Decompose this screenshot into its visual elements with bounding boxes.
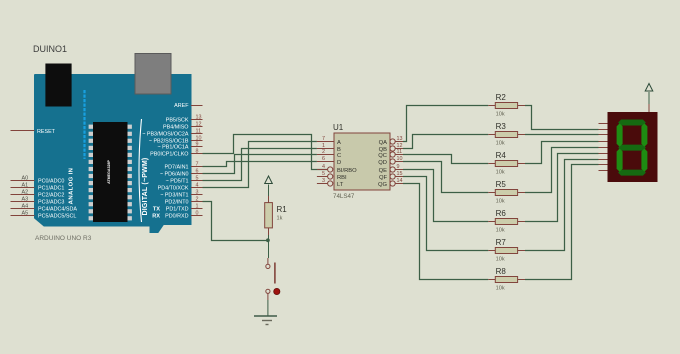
svg-text:13: 13 [397, 136, 403, 142]
svg-text:PD2/INT0: PD2/INT0 [165, 199, 189, 205]
svg-text:10k: 10k [496, 141, 505, 147]
svg-text:PC4/ADC4/SDA: PC4/ADC4/SDA [38, 207, 77, 213]
svg-text:1k: 1k [277, 216, 283, 222]
svg-text:R7: R7 [496, 238, 507, 247]
svg-text:4: 4 [322, 164, 325, 170]
svg-text:PD1/TXD: PD1/TXD [166, 206, 189, 212]
svg-text:QA: QA [379, 140, 388, 146]
svg-text:PD4/T0/XCK: PD4/T0/XCK [158, 185, 189, 191]
svg-text:7: 7 [196, 161, 199, 167]
svg-text:3: 3 [196, 189, 199, 195]
svg-text:LT: LT [337, 182, 344, 188]
svg-text:A: A [337, 140, 341, 146]
svg-text:QC: QC [378, 153, 387, 159]
svg-text:R3: R3 [496, 122, 507, 131]
svg-text:PC1/ADC1: PC1/ADC1 [38, 186, 64, 192]
svg-text:13: 13 [196, 114, 202, 120]
svg-text:PC0/ADC0: PC0/ADC0 [38, 179, 64, 185]
svg-text:U1: U1 [333, 123, 344, 132]
svg-text:QG: QG [378, 182, 388, 188]
svg-text:PC5/ADC5/SCL: PC5/ADC5/SCL [38, 214, 76, 220]
svg-text:5: 5 [196, 175, 199, 181]
svg-text:A2: A2 [22, 189, 29, 195]
svg-text:2: 2 [322, 149, 325, 155]
svg-text:ARDUINO UNO R3: ARDUINO UNO R3 [35, 235, 92, 242]
svg-text:5: 5 [322, 171, 325, 177]
svg-text:DUINO1: DUINO1 [33, 44, 67, 54]
svg-text:BI/RBO: BI/RBO [337, 168, 357, 174]
svg-text:ATMEGA328P: ATMEGA328P [107, 160, 111, 184]
svg-text:A3: A3 [22, 196, 29, 202]
svg-text:~ PB1/OC1A: ~ PB1/OC1A [157, 144, 188, 150]
svg-text:A5: A5 [22, 210, 29, 216]
svg-text:10k: 10k [496, 257, 505, 263]
svg-text:PB5/SCK: PB5/SCK [166, 117, 189, 123]
svg-text:3: 3 [322, 178, 325, 184]
svg-text:~ PD6/AIN0: ~ PD6/AIN0 [160, 171, 189, 177]
svg-text:ANALOG IN: ANALOG IN [69, 168, 75, 205]
svg-text:RESET: RESET [37, 129, 56, 135]
svg-text:10k: 10k [496, 170, 505, 176]
svg-text:8: 8 [196, 148, 199, 154]
svg-text:12: 12 [196, 121, 202, 127]
svg-text:~ PD3/INT1: ~ PD3/INT1 [160, 192, 188, 198]
svg-text:R8: R8 [496, 267, 507, 276]
svg-text:R6: R6 [496, 209, 507, 218]
svg-text:QD: QD [378, 160, 387, 166]
svg-text:0: 0 [196, 210, 199, 216]
svg-text:PC3/ADC3: PC3/ADC3 [38, 200, 64, 206]
svg-text:9: 9 [397, 164, 400, 170]
svg-text:TX: TX [153, 206, 160, 212]
svg-text:~ PB3/MOSI/OC2A: ~ PB3/MOSI/OC2A [142, 131, 189, 137]
svg-text:2: 2 [196, 196, 199, 202]
svg-text:RX: RX [152, 213, 160, 219]
svg-text:9: 9 [196, 141, 199, 147]
svg-text:10: 10 [397, 156, 403, 162]
svg-text:DIGITAL (~PWM): DIGITAL (~PWM) [142, 158, 149, 216]
svg-text:~ PD5/T1: ~ PD5/T1 [166, 178, 189, 184]
svg-text:74LS47: 74LS47 [333, 193, 355, 200]
svg-text:PC2/ADC2: PC2/ADC2 [38, 193, 64, 199]
svg-text:10k: 10k [496, 112, 505, 118]
svg-text:PB4/MISO: PB4/MISO [163, 124, 188, 130]
svg-text:R5: R5 [496, 180, 507, 189]
svg-text:11: 11 [196, 128, 202, 134]
svg-text:R4: R4 [496, 151, 507, 160]
svg-text:14: 14 [397, 178, 403, 184]
svg-text:10k: 10k [496, 228, 505, 234]
svg-text:R1: R1 [277, 205, 288, 214]
svg-text:15: 15 [397, 171, 403, 177]
svg-text:4: 4 [196, 182, 199, 188]
svg-text:R2: R2 [496, 93, 507, 102]
svg-text:PD7/AIN1: PD7/AIN1 [165, 164, 189, 170]
svg-text:A0: A0 [22, 175, 29, 181]
svg-text:6: 6 [196, 168, 199, 174]
svg-text:RBI: RBI [337, 175, 347, 181]
svg-text:10k: 10k [496, 199, 505, 205]
svg-text:1: 1 [196, 203, 199, 209]
svg-text:QF: QF [379, 175, 388, 181]
svg-text:A1: A1 [22, 182, 29, 188]
svg-text:PB0ICP1/CLKO: PB0ICP1/CLKO [150, 151, 188, 157]
svg-text:6: 6 [322, 156, 325, 162]
svg-text:7: 7 [322, 136, 325, 142]
svg-text:PD0/RXD: PD0/RXD [165, 213, 188, 219]
svg-text:C: C [337, 153, 341, 159]
svg-text:AREF: AREF [174, 103, 189, 109]
svg-text:D: D [337, 160, 341, 166]
svg-text:A4: A4 [22, 203, 29, 209]
svg-text:QE: QE [379, 168, 388, 174]
svg-text:10k: 10k [496, 286, 505, 292]
svg-text:11: 11 [397, 149, 403, 155]
